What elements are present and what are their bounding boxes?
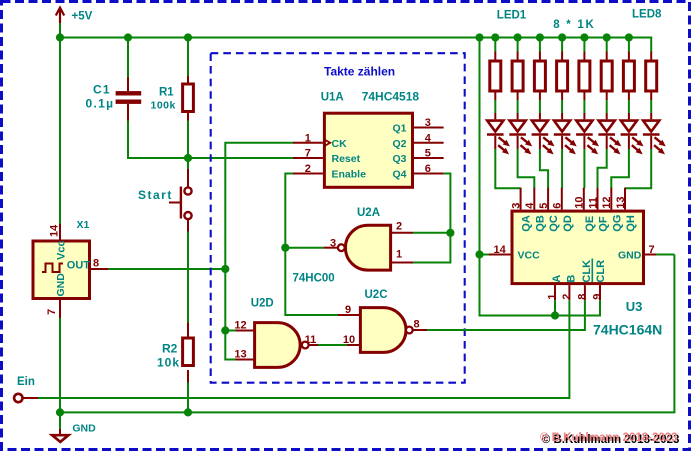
junction VCC rail (475, 33, 483, 41)
svg-text:QD: QD (562, 215, 574, 232)
U3 pin 7 stub (645, 254, 656, 256)
svg-text:R2: R2 (162, 342, 178, 356)
svg-text:11: 11 (587, 197, 599, 209)
resistor 1K #8 (646, 52, 657, 101)
svg-text:7: 7 (649, 244, 655, 256)
svg-text:4: 4 (524, 202, 536, 209)
svg-text:VCC: VCC (518, 249, 541, 261)
svg-text:12: 12 (234, 320, 246, 332)
svg-text:+5V: +5V (72, 11, 93, 23)
U3 pin 4 stub (533, 188, 535, 210)
wire resistor to LED2 (517, 100, 519, 113)
svg-text:1: 1 (396, 249, 402, 261)
LED LED3 (532, 113, 555, 154)
wire Ein to U3 B (38, 300, 569, 398)
svg-text:100k: 100k (151, 100, 176, 112)
nand gate U2C (360, 308, 412, 353)
wire R2 bottom to GND rail (187, 383, 189, 413)
junction U3 pinA (551, 311, 559, 319)
svg-text:3: 3 (510, 203, 522, 209)
wire LED3 to U3 (540, 149, 548, 188)
U3 pin 8 stub (584, 285, 586, 300)
dashed box Takte zaehlen (211, 53, 465, 383)
wire U2A out to Enable net (285, 247, 323, 249)
wire column LED7 top (628, 38, 630, 52)
svg-text:U2D: U2D (251, 298, 274, 310)
U2A input stubs (391, 232, 413, 234)
wire C1 bottom to node (128, 121, 188, 159)
counter U1A body (323, 113, 412, 187)
junction rail LED5 (580, 33, 588, 41)
svg-text:CLR: CLR (595, 260, 607, 283)
junction rail LED6 (603, 33, 611, 41)
svg-text:Reset: Reset (332, 153, 361, 165)
svg-text:1: 1 (547, 294, 559, 300)
junction rail LED7 (625, 33, 633, 41)
wire column LED8 top (650, 38, 652, 52)
svg-text:8: 8 (93, 258, 99, 270)
svg-text:13: 13 (234, 349, 246, 361)
svg-text:QA: QA (521, 215, 533, 232)
svg-text:QE: QE (584, 216, 596, 232)
svg-text:6: 6 (552, 203, 564, 209)
svg-text:CK: CK (332, 138, 348, 150)
svg-text:14: 14 (49, 224, 61, 237)
X1 pin 7 stub (59, 300, 61, 318)
wire U3 pinA down (554, 300, 556, 315)
svg-text:U2C: U2C (365, 289, 388, 301)
wire column LED6 top (606, 38, 608, 52)
svg-text:3: 3 (425, 117, 431, 129)
LED LED6 (598, 113, 621, 154)
svg-text:Q3: Q3 (392, 153, 406, 165)
U3 pin 1 stub (554, 285, 556, 300)
junction rail LED1 (491, 33, 499, 41)
svg-text:Q4: Q4 (392, 169, 406, 181)
svg-text:9: 9 (345, 304, 351, 316)
wire LED6 to U3 (598, 149, 607, 188)
svg-text:Q2: Q2 (392, 138, 406, 150)
svg-text:5: 5 (538, 203, 550, 209)
wire column LED5 top (583, 38, 585, 52)
wire column LED3 top (539, 38, 541, 52)
svg-text:10k: 10k (157, 356, 180, 370)
LED LED1 (487, 113, 510, 154)
wire U2A pin2 link (413, 232, 450, 234)
wire U2D out to U2C in (318, 344, 347, 346)
svg-text:5: 5 (425, 148, 431, 160)
svg-text:QG: QG (611, 215, 623, 232)
wire CK net (225, 143, 293, 360)
wire left +5V column down to X1 (59, 23, 61, 224)
wire U2C out to U3 CLK (427, 300, 585, 330)
svg-text:1: 1 (305, 132, 311, 144)
overbar CLR (591, 259, 593, 283)
wire resistor to LED1 (494, 100, 496, 113)
resistor 1K #1 (490, 52, 501, 101)
X1 pin 8 stub (91, 268, 108, 270)
wire LED7 to U3 (611, 149, 629, 188)
wire column LED2 top (517, 38, 519, 52)
svg-text:Ein: Ein (17, 376, 35, 388)
power +5V symbol (56, 8, 64, 23)
svg-text:10: 10 (574, 197, 586, 209)
junction rail LED4 (558, 33, 566, 41)
svg-text:U2A: U2A (357, 207, 380, 219)
switch SW Start (169, 169, 192, 232)
U2D output stub (309, 344, 318, 346)
junction rail C1 (124, 33, 132, 41)
U3 pin 2 stub (568, 285, 570, 300)
svg-text:2: 2 (561, 294, 573, 300)
svg-text:0.1µ: 0.1µ (86, 97, 115, 111)
junction rail LED3 (536, 33, 544, 41)
U2C output stub (413, 329, 427, 331)
svg-text:2: 2 (305, 163, 311, 175)
oscillator X1 (33, 241, 90, 299)
wire LED2 to U3 (518, 149, 535, 188)
wire R1 top (187, 38, 189, 77)
U3 pin 10 stub (583, 188, 585, 210)
U3 pin 3 stub (520, 188, 522, 210)
svg-text:10: 10 (343, 334, 355, 346)
junction GND/X1 (56, 408, 64, 416)
nand gate U2D (255, 323, 309, 368)
svg-text:© B.Kuhlmann 2018-2023: © B.Kuhlmann 2018-2023 (540, 432, 678, 444)
svg-text:8: 8 (413, 318, 419, 330)
wire X1 Vcc pin14 (59, 224, 61, 240)
junction CK/X1out (221, 265, 229, 273)
junction rail R1 (184, 33, 192, 41)
wire switch to R2 (187, 232, 189, 323)
junction node C1/R1/Reset (184, 154, 192, 162)
svg-text:Enable: Enable (332, 169, 367, 181)
svg-text:GND: GND (72, 423, 96, 435)
junction CK/U2D12 (221, 326, 229, 334)
svg-text:R1: R1 (159, 87, 174, 99)
svg-text:74HC164N: 74HC164N (593, 322, 662, 338)
svg-text:2: 2 (396, 221, 402, 233)
wire resistor to LED5 (583, 100, 585, 113)
wire LED8 to U3 (625, 149, 651, 188)
wire VCC feed down (480, 38, 601, 316)
svg-text:C1: C1 (93, 83, 111, 97)
svg-text:GND: GND (55, 273, 67, 297)
U3 pin 13 stub (624, 188, 626, 210)
wire X1 OUT to node (108, 268, 225, 270)
resistor 1K #2 (512, 52, 523, 101)
LED LED2 (509, 113, 532, 154)
wire +5V top rail (58, 37, 652, 39)
svg-text:U3: U3 (626, 299, 643, 314)
U3 pin 9 stub (599, 285, 601, 300)
wire X1 GND to rail (59, 318, 61, 412)
svg-text:Start: Start (138, 188, 173, 202)
junction +5V rail left (56, 33, 64, 41)
svg-text:QC: QC (548, 215, 560, 232)
LED LED7 (621, 113, 644, 154)
wire pin14 link (480, 254, 490, 256)
svg-text:LED1: LED1 (497, 10, 527, 22)
LED LED5 (576, 113, 599, 154)
svg-text:7: 7 (305, 148, 311, 160)
resistor 1K #4 (557, 52, 568, 101)
wire LED5 to U3 (583, 149, 585, 188)
junction rail LED2 (514, 33, 522, 41)
resistor R2 (183, 323, 194, 383)
wire Reset net (188, 157, 293, 159)
svg-text:GND: GND (618, 249, 642, 261)
svg-text:B: B (565, 275, 577, 283)
U2A output stub (323, 247, 337, 249)
U2C input stubs (338, 314, 361, 316)
wire resistor to LED7 (628, 100, 630, 113)
svg-text:12: 12 (601, 197, 613, 209)
U3 pin 5 stub (547, 188, 549, 210)
wire column LED1 top (494, 38, 496, 52)
svg-text:LED8: LED8 (632, 9, 662, 21)
resistor R1 (183, 76, 194, 121)
svg-text:8: 8 (576, 294, 588, 300)
resistor 1K #5 (579, 52, 590, 101)
svg-text:Takte zählen: Takte zählen (324, 65, 395, 79)
wire U2D pin12 link (225, 330, 235, 332)
wire pin7 to GND rail (656, 254, 674, 256)
svg-text:9: 9 (592, 294, 604, 300)
svg-text:11: 11 (305, 334, 317, 346)
svg-text:CLK: CLK (581, 260, 593, 283)
U2D input stubs (236, 330, 255, 332)
wire resistor to LED8 (650, 100, 652, 113)
junction GND/R2 (184, 408, 192, 416)
port Ein (14, 394, 22, 402)
svg-text:4: 4 (425, 132, 432, 144)
svg-text:13: 13 (615, 197, 627, 209)
junction Enable/U2Aout (281, 244, 289, 252)
wire Q4 to U2A inputs (413, 174, 450, 263)
svg-text:74HC00: 74HC00 (293, 273, 335, 285)
svg-text:74HC4518: 74HC4518 (362, 90, 420, 104)
svg-text:8 * 1K: 8 * 1K (553, 19, 595, 31)
resistor 1K #3 (534, 52, 545, 101)
svg-text:OUT: OUT (67, 260, 91, 272)
svg-text:Vcc: Vcc (56, 240, 68, 260)
svg-text:QF: QF (598, 216, 610, 232)
U3 pin 12 stub (610, 188, 612, 210)
Ein pin stub (23, 397, 38, 399)
wire LED4 to U3 (561, 149, 563, 188)
junction U3 pin14 (475, 250, 483, 258)
wire resistor to LED6 (606, 100, 608, 113)
wire GND rail (60, 255, 674, 413)
wire resistor to LED3 (539, 100, 541, 113)
ground symbol (52, 412, 68, 442)
copyright text (540, 432, 679, 446)
U1A pin stubs left (293, 142, 323, 144)
svg-text:QB: QB (534, 215, 546, 232)
shift register U3 body (512, 211, 644, 284)
wire column LED4 top (561, 38, 563, 52)
svg-text:X1: X1 (77, 219, 90, 231)
svg-text:14: 14 (494, 244, 507, 256)
LED LED8 (643, 113, 666, 154)
U1A pin stubs right (414, 127, 444, 129)
junction Q4/U2A2 (446, 229, 454, 237)
U3 pin 11 stub (597, 188, 599, 210)
U3 pin 6 stub (561, 188, 563, 210)
resistor 1K #7 (623, 52, 634, 101)
wire R1 bottom through node to switch (187, 121, 189, 170)
svg-text:7: 7 (46, 309, 58, 315)
U3 pin 14 stub (489, 254, 511, 256)
LED LED4 (554, 113, 577, 154)
svg-text:QH: QH (625, 215, 637, 232)
resistor 1K #6 (601, 52, 612, 101)
capacitor C1 (116, 77, 142, 121)
wire resistor to LED4 (561, 100, 563, 113)
svg-text:U1A: U1A (321, 92, 344, 104)
svg-text:Q1: Q1 (392, 123, 406, 135)
svg-text:6: 6 (425, 163, 431, 175)
svg-text:3: 3 (330, 237, 336, 249)
nand gate U2A (338, 225, 391, 270)
wire LED1 to U3 (495, 149, 520, 188)
wire Enable net (285, 174, 338, 316)
wire C1 top (127, 38, 129, 78)
svg-text:A: A (551, 275, 563, 283)
